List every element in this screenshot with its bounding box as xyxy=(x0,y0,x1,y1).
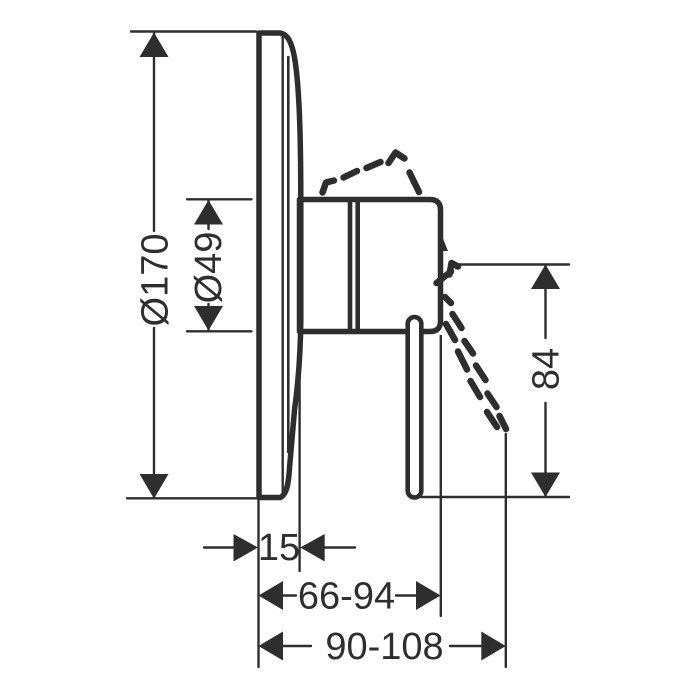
svg-text:90-108: 90-108 xyxy=(325,626,443,668)
arrow 15 right xyxy=(300,534,325,562)
dim line D170 lower xyxy=(153,328,155,497)
plate rim line xyxy=(287,57,290,452)
arrow 66-94 right xyxy=(416,581,441,610)
body joint line 2 xyxy=(355,202,360,329)
extension line D49 bottom xyxy=(187,330,252,332)
arrow 90-108 right xyxy=(481,632,506,661)
dim line D49 lower xyxy=(207,304,209,331)
pivot hook dash xyxy=(450,263,459,275)
dashed lever open position outer line xyxy=(445,297,506,429)
arrow 84 up xyxy=(531,265,560,290)
dim line D49 upper xyxy=(207,200,209,229)
dim 15 right tail xyxy=(322,546,355,548)
svg-text:Ø170: Ø170 xyxy=(135,234,177,327)
svg-text:15: 15 xyxy=(258,527,300,569)
dim line D170 upper xyxy=(153,33,155,231)
dashed lever open position inner line xyxy=(446,324,497,427)
extension vertical body end xyxy=(440,336,442,616)
dim line 84 lower xyxy=(544,403,546,496)
dashed lever tip cap (up position) xyxy=(323,181,335,193)
dim 90-108 line left xyxy=(280,645,311,647)
extension line top (D170) xyxy=(131,30,256,32)
extension vertical lever tip xyxy=(505,434,507,667)
dashed lever upper edge dash 1 xyxy=(344,171,358,178)
svg-text:84: 84 xyxy=(526,348,568,390)
valve body xyxy=(300,200,441,332)
body joint line 1 xyxy=(348,202,353,329)
extension line 84 bottom xyxy=(420,496,569,498)
dim 90-108 line right xyxy=(450,645,483,647)
extension vertical left (wall face) xyxy=(257,500,259,667)
dim line 84 upper xyxy=(544,265,546,338)
arrow 84 down xyxy=(531,473,560,498)
dim 66-94 line right xyxy=(396,594,418,596)
arrow D170 down xyxy=(140,474,169,499)
dim 66-94 line left xyxy=(280,594,296,596)
plate front face line xyxy=(282,37,284,496)
extension line D49 top xyxy=(187,198,252,200)
pivot crossing dash xyxy=(437,272,452,284)
extension vertical plate front xyxy=(298,336,300,571)
extension line bottom (D170) xyxy=(127,497,258,499)
arrow D170 up xyxy=(140,33,169,58)
svg-text:66-94: 66-94 xyxy=(298,576,395,618)
escutcheon plate outline xyxy=(259,33,301,498)
lever handle (down position) xyxy=(408,317,422,498)
dashed lever upper edge dash 2 xyxy=(367,162,381,168)
dashed lever peak corner xyxy=(389,153,405,164)
arrow 66-94 left xyxy=(259,581,284,610)
arrow 15 left xyxy=(234,534,259,562)
pivot wedge xyxy=(441,234,448,252)
extension line 84 top xyxy=(457,263,569,265)
arrow D49 down xyxy=(194,306,223,331)
svg-text:Ø49: Ø49 xyxy=(188,232,230,304)
dim 15 left tail xyxy=(204,546,236,548)
arrow 90-108 left xyxy=(259,632,284,661)
dashed lever steep dash xyxy=(410,173,420,193)
arrow D49 up xyxy=(194,200,223,225)
